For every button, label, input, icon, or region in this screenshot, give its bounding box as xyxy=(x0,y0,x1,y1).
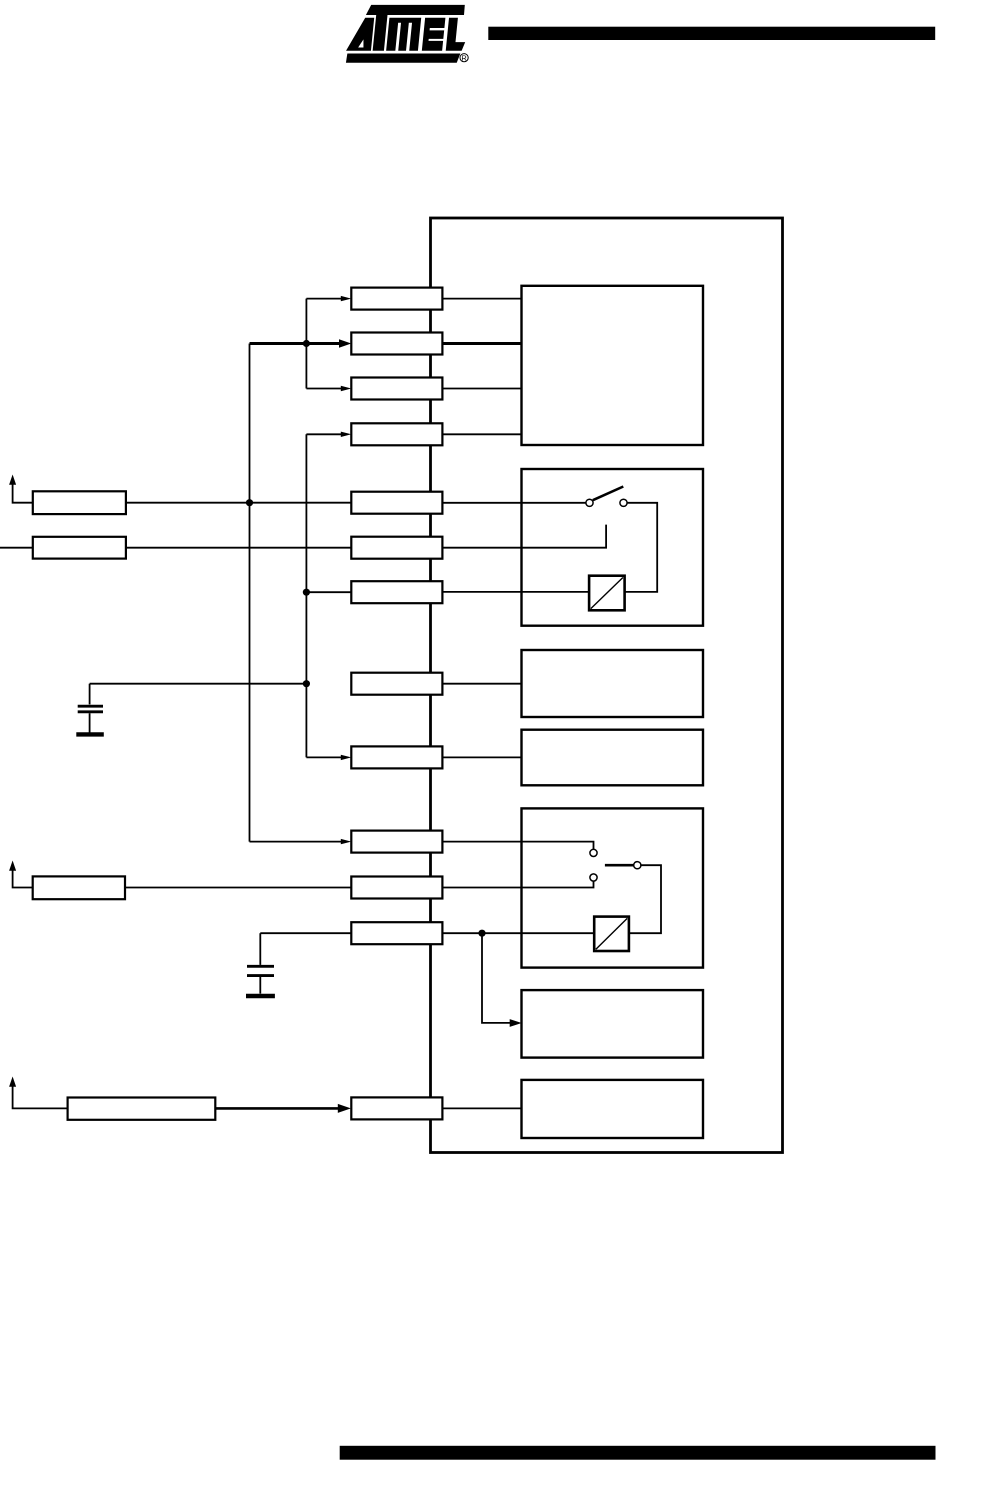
svg-text:R: R xyxy=(461,53,466,62)
